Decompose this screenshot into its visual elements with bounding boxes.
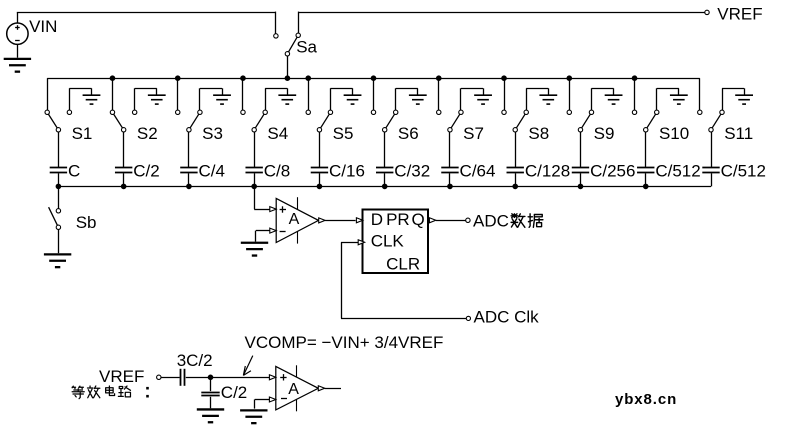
- op-amp U1 (comparator A): [276, 197, 318, 243]
- comparator + input arrow: [270, 207, 276, 212]
- label A (U1): [289, 211, 300, 228]
- wire S10 ground pole to ground: [657, 88, 679, 110]
- svg-text:C/256: C/256: [590, 162, 635, 181]
- wire top bus to S11 pole: [699, 78, 701, 110]
- top bus wire: [47, 78, 700, 80]
- capacitor C/512: [702, 168, 719, 173]
- capacitor C/4: [180, 168, 197, 173]
- capacitor C: [50, 168, 67, 173]
- junction bottom bus / C3: [186, 184, 192, 190]
- wire S6 to capacitor C/32: [384, 132, 386, 167]
- wire capacitor C/4 to bottom bus: [188, 173, 190, 186]
- svg-text:VREF: VREF: [99, 367, 144, 386]
- svg-text:Q: Q: [412, 210, 425, 229]
- wire S9 ground pole to ground: [591, 88, 613, 110]
- pin label Q: [412, 210, 425, 229]
- wire S8 to capacitor C/128: [515, 132, 517, 167]
- wire S8 ground pole to ground: [526, 88, 548, 110]
- label lu (equiv char 4): [118, 386, 130, 397]
- junction top bus / S6: [371, 75, 377, 81]
- wire 3C/2 to op-amp + input: [186, 377, 270, 379]
- label S10: [659, 124, 689, 143]
- wire capacitor C/32 to bottom bus: [384, 173, 386, 186]
- svg-text:C/16: C/16: [329, 162, 365, 181]
- terminal ADC Clk: [466, 316, 470, 320]
- label S5: [333, 124, 354, 143]
- wire top bus to S7 pole: [438, 78, 440, 110]
- label C/128: [525, 162, 570, 181]
- voltage source VIN: [7, 23, 28, 44]
- svg-text:S8: S8: [528, 124, 549, 143]
- switch Sa pole (VIN side): [274, 34, 278, 38]
- switch Sa arm: [289, 37, 298, 52]
- wire S4 to capacitor C/8: [254, 132, 256, 167]
- capacitor C/512: [637, 168, 654, 173]
- wire S4 ground pole to ground: [265, 88, 287, 110]
- switch S5 common: [317, 128, 321, 132]
- svg-text:S5: S5: [333, 124, 354, 143]
- ground of cell S8: [539, 95, 557, 104]
- ground of cell S5: [344, 95, 362, 104]
- svg-text:Sa: Sa: [296, 38, 317, 57]
- switch S11 pole (bus side): [698, 110, 702, 114]
- wire VIN to Sa: [17, 12, 276, 34]
- wire VREF to Sa: [298, 12, 705, 33]
- ground of cell S4: [278, 95, 296, 104]
- wire bottom bus to comparator + input: [254, 186, 270, 209]
- switch S8 arm: [516, 114, 525, 128]
- capacitor C/64: [441, 168, 458, 173]
- junction top bus / S4: [240, 75, 246, 81]
- svg-text:CLR: CLR: [386, 255, 420, 274]
- wire S3 ground pole to ground: [200, 88, 223, 110]
- wire top bus to S3 pole: [177, 78, 179, 110]
- wire capacitor C/8 to bottom bus: [254, 173, 256, 186]
- pin label CLR: [386, 255, 420, 274]
- op-amp U3 output arrow: [318, 386, 324, 391]
- capacitor C/2: [115, 168, 132, 173]
- svg-text:ADC: ADC: [473, 211, 509, 230]
- wire top bus to S1 pole: [47, 78, 49, 110]
- wire capacitor C/2 to bottom bus: [123, 173, 125, 186]
- switch S4 pole (bus side): [241, 110, 245, 114]
- wire op-amp - input to ground (U3): [255, 400, 270, 409]
- switch Sa common: [285, 52, 289, 56]
- svg-text:PR: PR: [386, 210, 410, 229]
- svg-text:CLK: CLK: [371, 232, 405, 251]
- svg-text:C/512: C/512: [655, 162, 700, 181]
- switch S10 pole (ground side): [655, 110, 659, 114]
- switch S8 common: [513, 128, 517, 132]
- label C/32: [394, 162, 430, 181]
- label Sa: [296, 38, 317, 57]
- svg-text:C/4: C/4: [199, 162, 225, 181]
- switch S2 pole (ground side): [132, 110, 136, 114]
- svg-text:D: D: [371, 210, 383, 229]
- wire top bus to S2 pole: [112, 78, 114, 110]
- switch S3 common: [187, 128, 191, 132]
- junction bottom bus / C2: [121, 184, 127, 190]
- comparator - input arrow: [270, 228, 276, 233]
- svg-text:C/64: C/64: [460, 162, 496, 181]
- label VREF (equivalent circuit): [99, 367, 144, 386]
- label shu (data char 1): [511, 214, 525, 227]
- switch S4 arm: [255, 114, 264, 128]
- svg-text:C/8: C/8: [264, 162, 290, 181]
- junction bottom bus / C1: [56, 184, 62, 190]
- wire terminal to capacitor 3C/2: [161, 377, 180, 379]
- svg-text:C/128: C/128: [525, 162, 570, 181]
- wire S2 ground pole to ground: [135, 88, 157, 110]
- junction bottom bus / C8: [512, 184, 518, 190]
- svg-text:S10: S10: [659, 124, 689, 143]
- ground of cell S6: [409, 95, 427, 104]
- label Sb: [76, 213, 97, 232]
- junction top bus / S3: [175, 75, 181, 81]
- wire top bus to S9 pole: [569, 78, 571, 110]
- wire S5 ground pole to ground: [330, 88, 352, 110]
- switch S5 pole (bus side): [306, 110, 310, 114]
- switch S11 pole (ground side): [720, 110, 724, 114]
- svg-text:A: A: [289, 211, 300, 228]
- switch S10 common: [644, 128, 648, 132]
- ground under Sb: [44, 254, 71, 267]
- wire S10 to capacitor C/512: [645, 132, 647, 167]
- capacitor C/16: [311, 168, 328, 173]
- switch S1 arm: [48, 114, 57, 128]
- switch S6 common: [383, 128, 387, 132]
- capacitor 3C/2: [181, 369, 185, 386]
- svg-text:S9: S9: [594, 124, 615, 143]
- svg-text:S3: S3: [202, 124, 223, 143]
- label C/4: [199, 162, 225, 181]
- label S7: [463, 124, 484, 143]
- svg-text:S11: S11: [724, 124, 753, 143]
- switch S7 pole (bus side): [437, 110, 441, 114]
- terminal VREF equivalent: [157, 375, 161, 379]
- wire comparator - input to ground: [256, 231, 270, 242]
- node VCOMP junction: [208, 375, 214, 381]
- label S4: [267, 124, 288, 143]
- switch S1 common: [56, 128, 60, 132]
- switch S6 arm: [386, 114, 395, 128]
- label ADC Clk: [474, 307, 540, 326]
- junction top bus / S9: [566, 75, 572, 81]
- label C/256: [590, 162, 635, 181]
- wire ADC Clk to CLK input: [341, 242, 466, 318]
- wire top bus to S6 pole: [373, 78, 375, 110]
- wire Sa to top bus: [287, 56, 289, 78]
- ground of cell S9: [605, 95, 623, 104]
- op-amp U3 (equivalent comparator A): [276, 365, 319, 411]
- switch S11 common: [709, 128, 713, 132]
- CLK input arrow: [358, 240, 364, 245]
- label dian (equiv char 3): [106, 386, 115, 396]
- wire S6 ground pole to ground: [396, 88, 418, 110]
- ground under VIN: [4, 44, 31, 71]
- label C/512: [655, 162, 700, 181]
- label xiao (equiv char 2): [87, 386, 99, 398]
- switch S4 common: [252, 128, 256, 132]
- junction top bus / S8: [501, 75, 507, 81]
- switch S3 arm: [190, 114, 199, 128]
- terminal ADC data: [466, 218, 470, 222]
- label S11: [724, 124, 753, 143]
- pin label CLK: [371, 232, 405, 251]
- label ADC (data): [473, 211, 509, 230]
- switch S6 pole (bus side): [371, 110, 375, 114]
- ground of cell S3: [213, 95, 231, 104]
- pin label D: [371, 210, 383, 229]
- wire capacitor C/512 to bottom bus: [645, 173, 647, 186]
- label VREF: [717, 4, 762, 23]
- svg-text:C/512: C/512: [721, 162, 766, 181]
- switch S8 pole (bus side): [502, 110, 506, 114]
- svg-text:C/2: C/2: [133, 162, 159, 181]
- wire S1 to capacitor C: [58, 132, 60, 167]
- switch S9 common: [578, 128, 582, 132]
- switch S9 pole (bus side): [567, 110, 571, 114]
- label C/16: [329, 162, 365, 181]
- switch S1 pole (ground side): [67, 110, 71, 114]
- wire top bus to S10 pole: [634, 78, 636, 110]
- label VCOMP equation: [245, 333, 444, 352]
- switch S5 arm: [321, 114, 330, 128]
- label S2: [137, 124, 158, 143]
- svg-text:C: C: [68, 162, 80, 181]
- junction top bus / S7: [436, 75, 442, 81]
- switch S7 arm: [451, 114, 460, 128]
- switch Sb pole: [56, 209, 60, 213]
- junction bottom bus / C6: [382, 184, 388, 190]
- wire S9 to capacitor C/256: [580, 132, 582, 167]
- junction Sa-bus: [285, 75, 291, 81]
- wire bottom bus to Sb: [58, 186, 60, 208]
- label S6: [398, 124, 419, 143]
- switch S7 common: [448, 128, 452, 132]
- wire S1 ground pole to ground: [69, 88, 91, 110]
- switch S3 pole (bus side): [176, 110, 180, 114]
- comparator output arrow: [319, 218, 325, 223]
- label S3: [202, 124, 223, 143]
- label VIN: [29, 17, 57, 36]
- ground at U3 - input: [240, 410, 267, 423]
- wire S3 to capacitor C/4: [188, 132, 190, 167]
- junction top bus / S2: [110, 75, 116, 81]
- wire S2 to capacitor C/2: [123, 132, 125, 167]
- switch S8 pole (ground side): [524, 110, 528, 114]
- op-amp - input arrow (U3): [269, 397, 275, 402]
- svg-text:ybx8.cn: ybx8.cn: [615, 391, 677, 408]
- watermark ybx8.cn: [615, 391, 677, 408]
- switch S6 pole (ground side): [394, 110, 398, 114]
- capacitor C/32: [376, 168, 393, 173]
- switch S7 pole (ground side): [459, 110, 463, 114]
- bottom bus wire (comparator summing node): [58, 186, 711, 188]
- label A (U3): [288, 381, 299, 398]
- label S9: [594, 124, 615, 143]
- label 3C/2: [177, 351, 213, 370]
- terminal VREF: [705, 10, 709, 14]
- wire node to capacitor C/2: [210, 377, 212, 391]
- capacitor C/256: [572, 168, 589, 173]
- label S8: [528, 124, 549, 143]
- junction bottom bus / C9: [578, 184, 584, 190]
- ground under C/2: [197, 409, 224, 422]
- switch Sb common: [56, 225, 60, 229]
- svg-text:C/2: C/2: [221, 383, 247, 402]
- wire S11 ground pole to ground: [722, 88, 745, 110]
- junction bottom bus / C5: [317, 184, 323, 190]
- switch S2 pole (bus side): [110, 110, 114, 114]
- switch S5 pole (ground side): [328, 110, 332, 114]
- label deng (equiv char 1): [72, 386, 84, 399]
- ground of cell S2: [148, 95, 166, 104]
- label ju (data char 2): [528, 214, 543, 227]
- svg-text:A: A: [288, 381, 299, 398]
- label C/64: [460, 162, 496, 181]
- wire top bus to S8 pole: [504, 78, 506, 110]
- svg-text:S7: S7: [463, 124, 484, 143]
- label C/2: [221, 383, 247, 402]
- svg-text:S2: S2: [137, 124, 158, 143]
- wire Sb to ground: [58, 230, 60, 254]
- switch S1 pole (bus side): [45, 110, 49, 114]
- label C/8: [264, 162, 290, 181]
- switch S3 pole (ground side): [198, 110, 202, 114]
- label S1: [72, 124, 93, 143]
- ground of cell S10: [670, 95, 688, 104]
- svg-text:3C/2: 3C/2: [177, 351, 213, 370]
- switch S10 arm: [647, 114, 656, 128]
- Q output arrow: [429, 218, 435, 223]
- svg-text:ADC Clk: ADC Clk: [474, 307, 540, 326]
- wire S11 to capacitor C/512: [711, 132, 713, 167]
- wire top bus to S5 pole: [308, 78, 310, 110]
- ground of cell S1: [83, 95, 101, 104]
- ground at comparator - input: [241, 243, 268, 256]
- svg-text:VCOMP= −VIN+ 3/4VREF: VCOMP= −VIN+ 3/4VREF: [245, 333, 444, 352]
- wire S7 ground pole to ground: [461, 88, 484, 110]
- wire capacitor C/64 to bottom bus: [449, 173, 451, 186]
- switch S9 arm: [582, 114, 591, 128]
- wire S7 to capacitor C/64: [449, 132, 451, 167]
- wire top bus to S4 pole: [242, 78, 244, 110]
- switch S11 arm: [712, 114, 721, 128]
- label C/512: [721, 162, 766, 181]
- label C: [68, 162, 80, 181]
- svg-text:S4: S4: [267, 124, 288, 143]
- wire capacitor C/256 to bottom bus: [580, 173, 582, 186]
- op-amp + input arrow (U3): [269, 375, 275, 380]
- ground of cell S7: [474, 95, 492, 104]
- switch S2 common: [121, 128, 125, 132]
- switch S9 pole (ground side): [589, 110, 593, 114]
- wire U3 output: [325, 388, 341, 390]
- D input arrow: [356, 218, 362, 223]
- svg-text:S6: S6: [398, 124, 419, 143]
- svg-text:C/32: C/32: [394, 162, 430, 181]
- wire S5 to capacitor C/16: [319, 132, 321, 167]
- wire capacitor C to bottom bus: [58, 173, 60, 186]
- svg-text:Sb: Sb: [76, 213, 97, 232]
- wire capacitor C/128 to bottom bus: [515, 173, 517, 186]
- label fullwidth colon: [146, 387, 149, 398]
- junction bottom bus / C10: [643, 184, 649, 190]
- switch Sb arm: [49, 207, 58, 225]
- capacitor C/8: [245, 168, 262, 173]
- wire capacitor C/16 to bottom bus: [319, 173, 321, 186]
- switch Sa pole (VREF side): [296, 33, 300, 37]
- wire Q to ADC data terminal: [436, 220, 466, 222]
- svg-text:VREF: VREF: [717, 4, 762, 23]
- ground of cell S11: [735, 95, 753, 104]
- junction bottom bus / C7: [447, 184, 453, 190]
- switch S2 arm: [114, 114, 123, 128]
- annotation arrow to VCOMP node: [243, 356, 252, 376]
- junction top bus / S10: [632, 75, 638, 81]
- switch S10 pole (bus side): [632, 110, 636, 114]
- wire comparator output to D input: [325, 220, 356, 222]
- wire C/2 to ground: [210, 397, 212, 409]
- junction bottom bus / C4: [251, 184, 257, 190]
- D flip-flop U2: [363, 210, 429, 274]
- capacitor C/2: [201, 393, 219, 396]
- wire capacitor C/512 to bottom bus: [711, 173, 713, 186]
- svg-text:VIN: VIN: [29, 17, 57, 36]
- junction top bus / S5: [305, 75, 311, 81]
- switch S4 pole (ground side): [263, 110, 267, 114]
- capacitor C/128: [507, 168, 524, 173]
- svg-text:S1: S1: [72, 124, 93, 143]
- pin label PR: [386, 210, 410, 229]
- label C/2: [133, 162, 159, 181]
